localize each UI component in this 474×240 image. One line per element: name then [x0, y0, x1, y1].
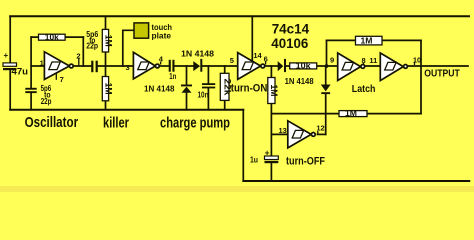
wire: ground riser	[242, 110, 244, 181]
svg-text:14: 14	[253, 51, 262, 60]
wire: 1M chain middle lead	[105, 52, 107, 66]
wire: 1M chain lower leads	[105, 66, 107, 77]
wire: output	[408, 65, 468, 67]
wire: gate6 output to riser	[317, 133, 325, 135]
pin tick pin12	[317, 131, 319, 134]
svg-text:12: 12	[316, 124, 324, 133]
capacitor 5p6-22p oscillator trimmer	[25, 83, 51, 106]
svg-text:Latch: Latch	[352, 84, 376, 95]
svg-text:1N 4148: 1N 4148	[285, 77, 315, 86]
svg-text:22p: 22p	[41, 96, 52, 106]
svg-text:10n: 10n	[198, 90, 209, 100]
svg-text:Oscillator: Oscillator	[25, 114, 79, 131]
svg-text:1M: 1M	[269, 85, 279, 97]
svg-text:47u: 47u	[12, 67, 29, 77]
wire: 1M chain top lead	[105, 16, 107, 29]
wire: series diode to gate3 input	[202, 65, 237, 67]
wire: pin13 to 1M bottom	[271, 113, 339, 115]
diode D1 series 1N4148	[181, 50, 215, 72]
resistor 1M killer upper	[102, 29, 113, 52]
op-amp gate U1f turn-OFF	[288, 121, 315, 148]
junction node 9 dot	[325, 64, 329, 68]
svg-text:5: 5	[230, 56, 234, 65]
svg-text:1M: 1M	[103, 83, 113, 95]
svg-text:22p: 22p	[86, 41, 98, 51]
wire: 1n cap to series diode	[175, 65, 194, 67]
bottom edge band	[0, 186, 474, 192]
wire: bottom ground rail (upper)	[10, 109, 243, 111]
svg-text:turn-ON: turn-ON	[231, 82, 268, 94]
wire: node9 diode branch upper	[325, 66, 327, 85]
wire: 10k loop left riser / oscillator input column	[30, 37, 32, 88]
svg-text:turn-OFF: turn-OFF	[286, 156, 325, 168]
svg-text:1N 4148: 1N 4148	[181, 50, 215, 59]
svg-text:OUTPUT: OUTPUT	[424, 67, 460, 79]
svg-text:40106: 40106	[271, 35, 308, 51]
svg-text:10k: 10k	[296, 62, 312, 71]
resistor 1M killer lower	[102, 77, 113, 101]
wire: 10k feedback loop top	[31, 36, 83, 38]
diode D3 turn-on 1N4148	[278, 59, 314, 86]
svg-text:1N 4148: 1N 4148	[144, 84, 175, 93]
wire: 10k loop right riser	[82, 37, 84, 66]
svg-text:+: +	[265, 148, 270, 157]
diode D4 latch set	[321, 85, 331, 95]
wire: 1u cap to ground rail	[270, 163, 272, 181]
wire: 10k to gate4 input	[317, 65, 338, 67]
svg-text:10: 10	[413, 55, 421, 64]
svg-text:killer: killer	[103, 115, 129, 132]
capacitor 47u electrolytic	[3, 51, 28, 77]
svg-text:charge pump: charge pump	[160, 115, 230, 132]
wire: touch plate lead	[123, 30, 134, 66]
pin tick pin8	[363, 63, 365, 65]
capacitor 1n	[169, 60, 177, 81]
capacitor 5p6-22p killer series	[86, 29, 98, 72]
svg-text:1n: 1n	[169, 71, 176, 81]
svg-text:13: 13	[279, 126, 287, 135]
diode D2 shunt 1N4148	[144, 84, 192, 93]
wire: 22k leads	[224, 66, 226, 73]
wire: bottom ground rail (lower)	[243, 180, 469, 182]
wire: left rail upper segment	[9, 16, 11, 63]
svg-text:8: 8	[362, 56, 366, 65]
op-amp gate U1a oscillator	[44, 52, 73, 80]
wire: gate4 to gate5	[365, 65, 380, 67]
wire: oscillator trimmer bottom lead	[30, 93, 32, 110]
svg-text:1M: 1M	[103, 35, 113, 47]
svg-text:10k: 10k	[45, 33, 60, 42]
wire: 10n cap bottom lead	[207, 88, 209, 109]
wire: node9 riser to 1M loop	[326, 40, 328, 66]
wire: 1M turn-off chain upper lead	[270, 66, 272, 78]
wire: latch 1M loop top	[327, 39, 422, 41]
resistor 10k turn-on	[290, 62, 317, 71]
resistor 22k charge pump	[220, 73, 232, 100]
pin tick pin7	[55, 73, 57, 80]
op-amp gate U1e latch second	[380, 53, 407, 81]
wire: pin13 input	[271, 133, 287, 135]
wire: pin14 supply lead	[251, 16, 253, 62]
resistor 10k oscillator feedback	[39, 33, 66, 42]
wire: 1M bottom to output riser	[367, 113, 421, 115]
wire: killer cap to gate2 input	[98, 65, 134, 67]
wire: gate3 output to diode	[265, 65, 278, 67]
wire: 10n cap top lead	[207, 66, 209, 83]
svg-text:1M: 1M	[361, 36, 373, 45]
wire: shunt diode top lead	[186, 66, 188, 85]
svg-text:11: 11	[369, 56, 377, 65]
wire: gate1 output to killer cap	[73, 65, 91, 67]
wire: shunt diode bottom lead	[186, 93, 188, 110]
capacitor 1u electrolytic	[250, 148, 278, 164]
svg-text:+: +	[4, 51, 9, 60]
pin tick pin6	[265, 61, 267, 65]
wire: 1M turn-off chain to pin13 node	[270, 104, 272, 135]
wire: gate1 input	[31, 65, 44, 67]
wire: diode D3 to 10k	[286, 65, 290, 67]
wire: pin13 node to 1u cap	[270, 134, 272, 156]
op-amp gate U1b killer	[133, 52, 159, 79]
resistor 1M output to pin13	[339, 109, 367, 118]
capacitor 10n	[198, 83, 216, 99]
svg-text:3: 3	[126, 63, 130, 72]
wire: output riser	[420, 40, 422, 113]
svg-text:1M: 1M	[345, 109, 357, 118]
resistor 1M turn-off chain	[268, 78, 279, 104]
wire: top supply rail	[10, 15, 469, 17]
svg-text:6: 6	[264, 55, 268, 64]
svg-text:1u: 1u	[250, 155, 258, 165]
resistor 1M latch feedback top	[356, 36, 383, 45]
svg-text:1: 1	[40, 59, 44, 68]
touch plate pad	[134, 22, 172, 40]
svg-text:plate: plate	[152, 31, 172, 41]
svg-text:9: 9	[330, 56, 334, 65]
op-amp gate U1d latch first	[338, 53, 365, 81]
wire: gate2 output to 1n cap	[161, 65, 169, 67]
wire: node9 diode branch lower	[325, 94, 327, 135]
op-amp gate U1c turn-ON	[238, 53, 265, 80]
wire: left rail lower segment	[9, 70, 11, 110]
pin tick pin2	[78, 59, 80, 66]
svg-text:2: 2	[76, 51, 80, 60]
pin tick pin10	[414, 62, 416, 65]
svg-text:7: 7	[60, 75, 64, 84]
pin tick pin4	[160, 62, 162, 65]
